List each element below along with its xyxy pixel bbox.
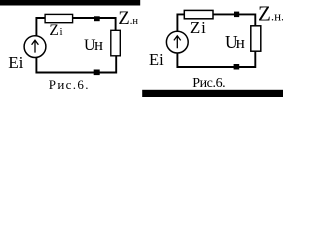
resistor Zi right (series impedance box) — [184, 10, 213, 18]
svg-text:Рис.6.: Рис.6. — [49, 77, 90, 92]
svg-text:Zi: Zi — [49, 22, 62, 39]
svg-text:Рис.6.: Рис.6. — [192, 76, 225, 91]
wire: bottom return right — [177, 51, 255, 67]
black separator bar top-left — [0, 0, 140, 6]
junction dot top — [94, 16, 100, 21]
load resistor Z.н (vertical box) — [111, 30, 121, 56]
svg-text:Zi: Zi — [190, 18, 207, 37]
svg-text:Ei: Ei — [8, 53, 23, 72]
wire: source top riser to Zi box (right) — [177, 14, 184, 32]
wire: source Ei top riser to Zi box — [36, 18, 45, 37]
load resistor Z.н. right (vertical box) — [251, 26, 261, 51]
junction dot top right — [234, 12, 239, 18]
resistor Zi (series impedance box) — [45, 14, 73, 22]
arrow inside source — [32, 40, 39, 52]
wire: bottom return (load bottom to source bottom) — [36, 56, 116, 73]
current source Ei (circle) — [24, 36, 46, 58]
svg-text:Uн: Uн — [225, 32, 245, 52]
wire: Zi box to load top corner — [73, 18, 116, 30]
svg-text:Uн: Uн — [84, 35, 103, 54]
junction dot bottom — [94, 70, 100, 76]
svg-text:Ei: Ei — [149, 50, 164, 69]
junction dot bottom right — [234, 64, 240, 70]
wire: Zi box to load top corner (right) — [213, 14, 255, 25]
current source Ei right (circle) — [166, 31, 188, 53]
svg-text:Z.н: Z.н — [118, 9, 138, 29]
black separator bar bottom-right — [142, 90, 283, 97]
svg-text:Z.н.: Z.н. — [258, 2, 283, 26]
arrow inside source right — [174, 36, 181, 48]
